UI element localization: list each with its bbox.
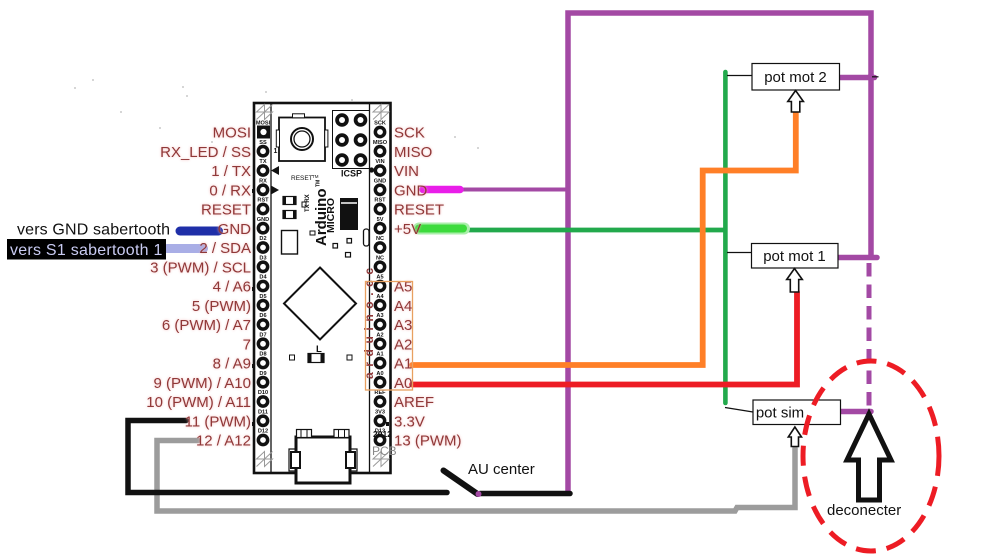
svg-text:8 / A9: 8 / A9 — [213, 356, 251, 373]
svg-text:RST: RST — [374, 198, 386, 204]
svg-text:2 / SDA: 2 / SDA — [199, 240, 251, 257]
svg-text:D11: D11 — [258, 410, 268, 416]
svg-text:SS: SS — [259, 140, 267, 146]
svg-text:1 / TX: 1 / TX — [211, 163, 251, 180]
svg-text:A2: A2 — [376, 333, 383, 339]
svg-text:GND: GND — [257, 217, 269, 223]
svg-text:D4: D4 — [259, 275, 267, 281]
svg-text:13 (PWM): 13 (PWM) — [394, 433, 462, 450]
svg-text:11 (PWM): 11 (PWM) — [185, 413, 251, 430]
svg-text:ICSP: ICSP — [341, 169, 362, 179]
svg-text:A2: A2 — [394, 336, 412, 353]
svg-text:A4: A4 — [376, 294, 384, 300]
svg-text:D6: D6 — [259, 313, 266, 319]
svg-text:A0: A0 — [394, 375, 412, 392]
svg-text:5 (PWM): 5 (PWM) — [192, 298, 251, 315]
svg-text:D3: D3 — [259, 256, 266, 262]
svg-text:3 (PWM) / SCL: 3 (PWM) / SCL — [150, 259, 251, 276]
svg-text:PCB: PCB — [372, 444, 397, 458]
svg-text:+5V: +5V — [394, 221, 421, 238]
svg-text:D8: D8 — [259, 352, 266, 358]
svg-text:RX: RX — [259, 179, 267, 185]
svg-text:TM: TM — [312, 174, 319, 179]
svg-text:7: 7 — [243, 336, 251, 353]
svg-text:RST: RST — [257, 198, 269, 204]
svg-text:GND: GND — [374, 179, 386, 185]
svg-text:A3: A3 — [394, 317, 412, 334]
svg-text:REF: REF — [374, 390, 386, 396]
svg-text:A1: A1 — [394, 356, 412, 373]
svg-text:D2: D2 — [259, 236, 266, 242]
svg-text:RESET: RESET — [201, 202, 251, 219]
svg-text:1: 1 — [274, 148, 278, 155]
svg-text:VIN: VIN — [394, 163, 419, 180]
svg-text:5V: 5V — [377, 217, 384, 223]
svg-text:D9: D9 — [259, 371, 266, 377]
svg-text:3.3V: 3.3V — [394, 413, 425, 430]
svg-text:SCK: SCK — [394, 125, 425, 142]
svg-text:3V3: 3V3 — [375, 410, 385, 416]
svg-text:9 (PWM) / A10: 9 (PWM) / A10 — [153, 375, 251, 392]
svg-text:deconecter: deconecter — [827, 502, 901, 519]
svg-text:pot mot 1: pot mot 1 — [763, 248, 826, 265]
svg-text:NC: NC — [376, 236, 384, 242]
svg-text:A5: A5 — [376, 275, 383, 281]
svg-text:10 (PWM) / A11: 10 (PWM) / A11 — [146, 394, 251, 411]
svg-text:MICRO: MICRO — [325, 198, 337, 233]
svg-text:A0: A0 — [376, 371, 383, 377]
svg-text:MISO: MISO — [394, 144, 432, 161]
svg-text:GND: GND — [218, 221, 252, 238]
svg-text:RX_LED / SS: RX_LED / SS — [160, 144, 251, 161]
svg-text:pot sim: pot sim — [756, 405, 804, 422]
svg-text:vers S1 sabertooth 1: vers S1 sabertooth 1 — [10, 242, 163, 259]
svg-text:MOSI: MOSI — [256, 121, 271, 127]
svg-text:arduino.cc: arduino.cc — [362, 262, 376, 379]
svg-text:TM: TM — [316, 180, 322, 187]
svg-text:2012: 2012 — [373, 429, 392, 439]
svg-text:0 / RX: 0 / RX — [209, 182, 251, 199]
svg-text:A4: A4 — [394, 298, 412, 315]
svg-text:12 / A12: 12 / A12 — [196, 433, 251, 450]
svg-text:vers GND sabertooth: vers GND sabertooth — [17, 222, 170, 239]
svg-text:SCK: SCK — [374, 121, 386, 127]
svg-text:6 (PWM) / A7: 6 (PWM) / A7 — [162, 317, 251, 334]
svg-text:RESET: RESET — [394, 202, 444, 219]
svg-text:pot mot 2: pot mot 2 — [764, 69, 827, 86]
svg-text:NC: NC — [376, 256, 384, 262]
svg-text:D5: D5 — [259, 294, 266, 300]
svg-text:TX: TX — [259, 159, 266, 165]
svg-text:AREF: AREF — [394, 394, 434, 411]
svg-text:A3: A3 — [376, 313, 383, 319]
svg-text:MOSI: MOSI — [213, 125, 251, 142]
svg-text:AU center: AU center — [468, 461, 535, 478]
svg-text:4 / A6: 4 / A6 — [213, 279, 251, 296]
svg-text:D7: D7 — [259, 333, 266, 339]
svg-text:A1: A1 — [376, 352, 383, 358]
svg-text:MISO: MISO — [373, 140, 388, 146]
svg-text:VIN: VIN — [375, 159, 384, 165]
svg-text:D10: D10 — [258, 390, 268, 396]
svg-text:GND: GND — [394, 182, 428, 199]
svg-text:RESET: RESET — [291, 175, 313, 182]
svg-text:D12: D12 — [258, 429, 268, 435]
